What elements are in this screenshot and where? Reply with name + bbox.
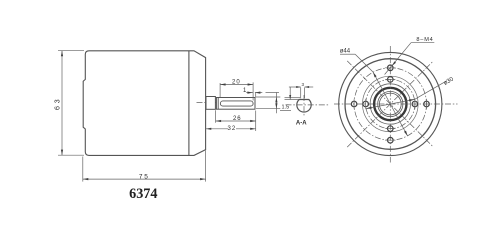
svg-text:A-A: A-A [296, 121, 307, 127]
svg-text:26: 26 [233, 116, 242, 122]
svg-text:75: 75 [139, 173, 150, 180]
svg-text:6374: 6374 [129, 186, 157, 202]
svg-text:20: 20 [232, 80, 241, 86]
svg-text:ø44: ø44 [340, 48, 351, 54]
svg-text:8–M4: 8–M4 [416, 37, 433, 43]
svg-text:63: 63 [54, 97, 61, 110]
svg-text:1.5: 1.5 [282, 104, 290, 110]
svg-text:32: 32 [228, 126, 237, 132]
